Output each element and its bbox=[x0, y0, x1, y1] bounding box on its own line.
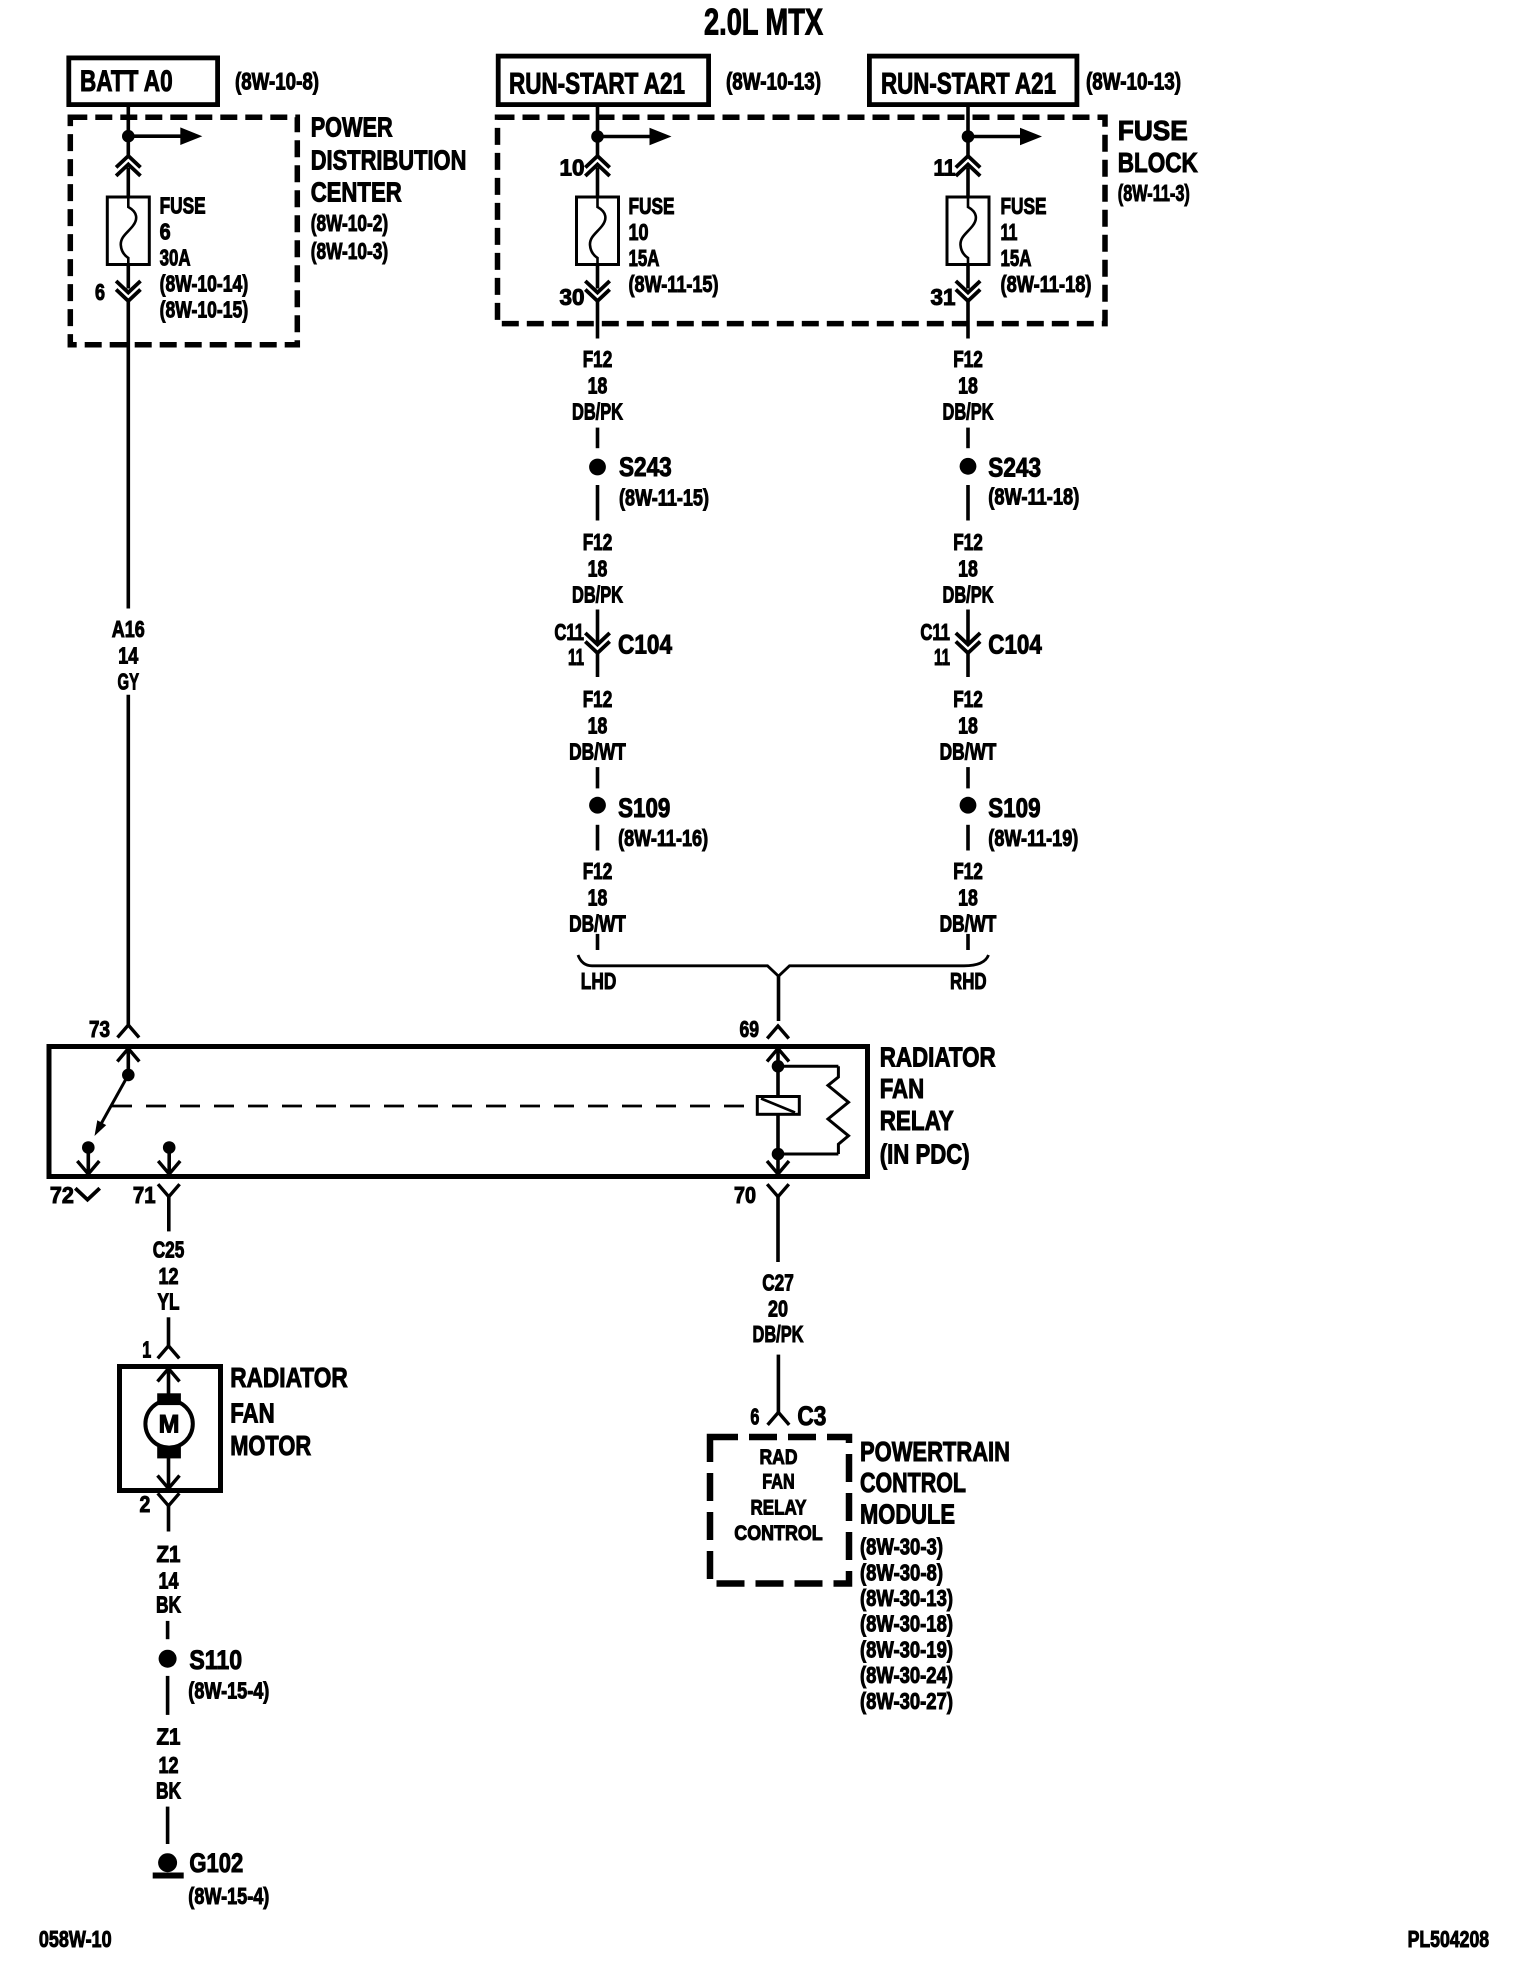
svg-text:(8W-11-19): (8W-11-19) bbox=[988, 825, 1078, 851]
pin 70 arrow inside relay bbox=[767, 1161, 789, 1174]
wire pin 30 out of fuse block bbox=[596, 301, 600, 339]
wire below C104 right bbox=[966, 653, 970, 677]
wire BATT A0 to junction bbox=[127, 105, 131, 133]
svg-text:C27: C27 bbox=[762, 1270, 794, 1296]
svg-text:MOTOR: MOTOR bbox=[230, 1430, 311, 1461]
svg-text:1: 1 bbox=[142, 1337, 151, 1363]
pin 71 arrow inside relay bbox=[158, 1161, 180, 1174]
battery feed box BATT A0 bbox=[69, 58, 218, 105]
pin 2 arrow inside motor box bbox=[158, 1476, 180, 1489]
svg-text:F12: F12 bbox=[583, 346, 613, 372]
pin 69 arrow inside relay bbox=[767, 1049, 789, 1062]
svg-text:DB/WT: DB/WT bbox=[940, 911, 997, 937]
connector double-chevron (PDC internal) bbox=[116, 156, 140, 168]
svg-text:DB/PK: DB/PK bbox=[572, 582, 623, 608]
radiator fan motor box bbox=[120, 1367, 221, 1491]
pin 31 double-chevron bbox=[956, 281, 980, 293]
svg-text:Z1: Z1 bbox=[157, 1541, 181, 1567]
svg-text:DB/PK: DB/PK bbox=[943, 399, 994, 425]
svg-text:(8W-30-3): (8W-30-3) bbox=[860, 1534, 943, 1560]
pin 30 double-chevron bbox=[585, 281, 609, 293]
wire to splice S243 right bbox=[966, 428, 970, 449]
svg-text:(8W-10-3): (8W-10-3) bbox=[311, 238, 389, 264]
svg-text:(8W-11-18): (8W-11-18) bbox=[1001, 271, 1092, 297]
wire motor to pin 2 bbox=[167, 1456, 171, 1489]
svg-text:18: 18 bbox=[588, 556, 608, 582]
svg-text:14: 14 bbox=[118, 643, 138, 669]
wire to C104 left bbox=[596, 610, 600, 646]
svg-text:(8W-30-18): (8W-30-18) bbox=[860, 1611, 953, 1637]
svg-text:6: 6 bbox=[160, 218, 171, 244]
svg-text:YL: YL bbox=[158, 1289, 180, 1315]
node pin 72 bbox=[82, 1141, 95, 1154]
svg-text:POWER: POWER bbox=[311, 111, 393, 142]
svg-text:S109: S109 bbox=[988, 793, 1040, 823]
svg-text:GY: GY bbox=[118, 669, 140, 695]
wire below S109 right bbox=[966, 825, 970, 851]
svg-text:RAD: RAD bbox=[760, 1446, 798, 1469]
ignition feed box RUN-START A21 (left) bbox=[498, 56, 708, 105]
svg-text:G102: G102 bbox=[189, 1848, 243, 1878]
wire A16 14 GY lower bbox=[127, 695, 131, 1025]
svg-text:15A: 15A bbox=[629, 245, 660, 271]
radiator fan relay box bbox=[49, 1047, 868, 1177]
relay coil bbox=[757, 1097, 799, 1115]
reference arrow (fuse block left) bbox=[598, 135, 651, 139]
coil top node bbox=[772, 1060, 785, 1073]
relay actuation dashed link bbox=[112, 1105, 757, 1108]
wire to C104 right bbox=[966, 610, 970, 646]
pin 6 double-chevron bbox=[116, 281, 140, 293]
wire to fuse 6 bbox=[127, 168, 131, 198]
svg-text:6: 6 bbox=[750, 1404, 759, 1430]
svg-text:DB/WT: DB/WT bbox=[569, 911, 626, 937]
reference arrow (fuse block right) bbox=[968, 135, 1021, 139]
svg-text:11: 11 bbox=[934, 155, 956, 181]
svg-text:RADIATOR: RADIATOR bbox=[230, 1362, 348, 1393]
motor M1 bbox=[145, 1400, 192, 1447]
wire pin 31 out of fuse block bbox=[966, 301, 970, 339]
svg-text:FUSE: FUSE bbox=[160, 192, 206, 218]
svg-text:RUN-START A21: RUN-START A21 bbox=[881, 68, 1056, 101]
svg-text:FUSE: FUSE bbox=[629, 193, 675, 219]
svg-text:BLOCK: BLOCK bbox=[1118, 147, 1198, 178]
svg-text:C3: C3 bbox=[797, 1401, 826, 1431]
svg-text:S110: S110 bbox=[189, 1645, 242, 1675]
ground G102 bbox=[158, 1853, 177, 1872]
svg-text:(8W-10-2): (8W-10-2) bbox=[311, 210, 389, 236]
motor brush (bottom) bbox=[157, 1447, 181, 1459]
svg-text:RHD: RHD bbox=[950, 968, 987, 994]
svg-text:18: 18 bbox=[958, 713, 978, 739]
junction node A (PDC) bbox=[122, 130, 135, 143]
svg-text:(8W-30-24): (8W-30-24) bbox=[860, 1662, 953, 1688]
wire to ground G102 bbox=[166, 1807, 170, 1844]
wire YL to motor pin 1 bbox=[167, 1317, 171, 1346]
wire to motor brush bbox=[167, 1369, 171, 1397]
junction node C (fuse block) bbox=[962, 130, 975, 143]
svg-text:(8W-11-15): (8W-11-15) bbox=[629, 271, 719, 297]
connector C104 chevrons right bbox=[956, 633, 980, 645]
wire to pin 71 bbox=[167, 1148, 171, 1175]
pin 6 connector C3 bbox=[768, 1412, 790, 1425]
svg-text:DISTRIBUTION: DISTRIBUTION bbox=[311, 145, 467, 176]
wire C27 to PCM pin 6 bbox=[777, 1355, 781, 1413]
svg-text:058W-10: 058W-10 bbox=[39, 1926, 112, 1952]
fuse 11 15A bbox=[947, 197, 989, 265]
svg-text:12: 12 bbox=[159, 1752, 179, 1778]
svg-text:LHD: LHD bbox=[581, 968, 617, 994]
svg-text:18: 18 bbox=[588, 373, 608, 399]
svg-text:F12: F12 bbox=[953, 858, 983, 884]
wire pin 69 to coil node bbox=[776, 1049, 780, 1067]
svg-text:FAN: FAN bbox=[880, 1073, 925, 1104]
svg-text:2: 2 bbox=[140, 1491, 151, 1517]
svg-text:18: 18 bbox=[588, 713, 608, 739]
svg-text:73: 73 bbox=[89, 1016, 110, 1042]
wire into RHD brace bbox=[966, 934, 970, 950]
svg-text:(8W-30-19): (8W-30-19) bbox=[860, 1636, 953, 1662]
relay suppression resistor bbox=[778, 1065, 838, 1068]
svg-text:CENTER: CENTER bbox=[311, 177, 402, 208]
svg-text:FUSE: FUSE bbox=[1118, 115, 1188, 146]
svg-text:DB/WT: DB/WT bbox=[940, 739, 997, 765]
wire coil to bottom node bbox=[776, 1114, 780, 1154]
svg-text:F12: F12 bbox=[583, 529, 613, 555]
svg-text:BATT A0: BATT A0 bbox=[80, 65, 173, 98]
coil bottom node bbox=[772, 1148, 785, 1161]
pin 73 arrow inside relay bbox=[117, 1049, 139, 1062]
svg-text:RELAY: RELAY bbox=[751, 1496, 807, 1519]
svg-text:(8W-30-8): (8W-30-8) bbox=[860, 1559, 943, 1585]
wire to splice S243 left bbox=[596, 428, 600, 449]
svg-text:C11: C11 bbox=[554, 619, 584, 645]
merged wire to pin 69 bbox=[777, 976, 781, 1021]
wire fuse 6 to pin 6 bbox=[127, 265, 131, 289]
merge brace LHD/RHD bbox=[578, 955, 989, 976]
svg-text:70: 70 bbox=[734, 1182, 756, 1208]
wire below S243 right bbox=[966, 485, 970, 521]
svg-text:72: 72 bbox=[50, 1182, 74, 1208]
svg-text:18: 18 bbox=[958, 556, 978, 582]
svg-text:(8W-10-8): (8W-10-8) bbox=[235, 69, 319, 96]
svg-text:MODULE: MODULE bbox=[860, 1499, 955, 1530]
powertrain control module dashed box bbox=[710, 1437, 849, 1584]
svg-text:S243: S243 bbox=[619, 452, 672, 482]
wire RUN-START right to junction bbox=[966, 105, 970, 133]
svg-text:18: 18 bbox=[588, 885, 608, 911]
connector C104 chevrons left bbox=[585, 633, 609, 645]
svg-text:F12: F12 bbox=[953, 529, 983, 555]
svg-text:F12: F12 bbox=[583, 686, 613, 712]
svg-text:PL504208: PL504208 bbox=[1408, 1926, 1490, 1952]
svg-text:14: 14 bbox=[159, 1568, 179, 1594]
wire node to coil bbox=[776, 1066, 780, 1096]
pin 2 connector bbox=[158, 1493, 180, 1506]
pin 69 connector bbox=[767, 1026, 789, 1039]
svg-text:(8W-30-27): (8W-30-27) bbox=[860, 1688, 953, 1714]
pin 1 arrow inside motor box bbox=[158, 1369, 180, 1382]
wire junction to pin 10 bbox=[596, 141, 600, 156]
svg-text:(8W-10-13): (8W-10-13) bbox=[1086, 69, 1181, 96]
svg-text:18: 18 bbox=[958, 885, 978, 911]
pin 72 arrow inside relay bbox=[77, 1161, 99, 1174]
relay switch blade bbox=[99, 1075, 129, 1129]
svg-text:S109: S109 bbox=[618, 793, 670, 823]
svg-text:69: 69 bbox=[740, 1016, 760, 1042]
svg-text:F12: F12 bbox=[953, 686, 983, 712]
svg-text:F12: F12 bbox=[953, 346, 983, 372]
fuse 10 15A bbox=[577, 197, 619, 265]
svg-text:POWERTRAIN: POWERTRAIN bbox=[860, 1436, 1010, 1467]
switch pivot node bbox=[122, 1069, 135, 1082]
splice S109 left bbox=[589, 797, 606, 814]
svg-text:C104: C104 bbox=[618, 630, 672, 660]
svg-text:6: 6 bbox=[95, 279, 105, 305]
svg-text:Z1: Z1 bbox=[157, 1724, 181, 1750]
pin 1 connector bbox=[158, 1346, 180, 1359]
svg-text:12: 12 bbox=[159, 1263, 179, 1289]
svg-text:30: 30 bbox=[560, 284, 585, 310]
pin 71 connector bbox=[158, 1184, 180, 1197]
svg-text:(8W-11-16): (8W-11-16) bbox=[618, 825, 708, 851]
svg-text:11: 11 bbox=[1001, 219, 1018, 245]
wire junction to pin 11 bbox=[966, 141, 970, 156]
svg-text:11: 11 bbox=[934, 644, 950, 670]
pin 11 double-chevron bbox=[956, 156, 980, 168]
svg-text:(8W-11-18): (8W-11-18) bbox=[988, 483, 1079, 509]
wire fuse 10 to pin 30 bbox=[596, 265, 600, 289]
svg-text:RELAY: RELAY bbox=[880, 1105, 954, 1136]
splice S243 left bbox=[589, 459, 606, 476]
ignition feed box RUN-START A21 (right) bbox=[869, 56, 1077, 105]
svg-text:FAN: FAN bbox=[230, 1398, 275, 1429]
svg-text:RUN-START A21: RUN-START A21 bbox=[509, 68, 685, 101]
fuse block dashed box bbox=[498, 117, 1106, 323]
svg-text:FAN: FAN bbox=[762, 1471, 794, 1494]
wire pin 70 to C27 label bbox=[776, 1197, 780, 1262]
svg-text:DB/PK: DB/PK bbox=[943, 582, 994, 608]
svg-text:(8W-15-4): (8W-15-4) bbox=[188, 1678, 269, 1704]
splice S243 right bbox=[960, 458, 977, 475]
wire junction to connector bbox=[127, 141, 131, 156]
fuse 6 30A bbox=[107, 197, 149, 265]
svg-text:CONTROL: CONTROL bbox=[734, 1522, 823, 1545]
svg-text:CONTROL: CONTROL bbox=[860, 1467, 966, 1498]
wire pin 71 to C25 label bbox=[167, 1197, 171, 1232]
svg-text:(8W-11-3): (8W-11-3) bbox=[1118, 180, 1190, 206]
motor brush (top) bbox=[157, 1393, 181, 1405]
wire to pin 70 bbox=[776, 1154, 780, 1174]
svg-text:DB/WT: DB/WT bbox=[569, 739, 626, 765]
wire RUN-START left to junction bbox=[596, 105, 600, 133]
svg-text:(8W-11-15): (8W-11-15) bbox=[619, 485, 709, 511]
pin 70 connector bbox=[767, 1184, 789, 1197]
svg-text:10: 10 bbox=[560, 155, 585, 181]
svg-text:20: 20 bbox=[768, 1295, 788, 1321]
svg-text:DB/PK: DB/PK bbox=[753, 1321, 804, 1347]
svg-text:(8W-10-14): (8W-10-14) bbox=[160, 270, 249, 296]
wire to fuse 11 bbox=[966, 168, 970, 198]
svg-text:FUSE: FUSE bbox=[1001, 193, 1047, 219]
svg-text:(8W-15-4): (8W-15-4) bbox=[188, 1883, 269, 1909]
wire to fuse 10 bbox=[596, 168, 600, 198]
pin 10 double-chevron bbox=[585, 156, 609, 168]
wire to pin 72 bbox=[87, 1148, 91, 1175]
pin 73 connector bbox=[118, 1025, 140, 1038]
wire into LHD brace bbox=[596, 934, 600, 950]
svg-text:(IN PDC): (IN PDC) bbox=[880, 1138, 970, 1169]
svg-text:10: 10 bbox=[629, 219, 649, 245]
svg-text:(8W-10-13): (8W-10-13) bbox=[726, 69, 821, 96]
wire A16 14 GY upper bbox=[127, 301, 131, 609]
wire pin73 to switch pivot bbox=[127, 1049, 131, 1075]
junction node B (fuse block) bbox=[591, 130, 604, 143]
power distribution center dashed box bbox=[70, 117, 297, 344]
svg-text:BK: BK bbox=[156, 1592, 181, 1618]
svg-text:F12: F12 bbox=[583, 858, 613, 884]
svg-text:M: M bbox=[159, 1411, 180, 1439]
svg-text:C104: C104 bbox=[988, 630, 1042, 660]
splice S109 right bbox=[960, 797, 977, 814]
wire below motor pin 2 bbox=[167, 1506, 171, 1532]
svg-text:A16: A16 bbox=[112, 616, 145, 642]
wire below C104 left bbox=[596, 653, 600, 677]
svg-text:C25: C25 bbox=[153, 1236, 185, 1262]
svg-text:S243: S243 bbox=[988, 452, 1041, 482]
node pin 71 bbox=[163, 1141, 176, 1154]
pin 72 chevron (no connection) bbox=[75, 1188, 99, 1200]
wire to splice S109 right bbox=[966, 767, 970, 788]
svg-text:18: 18 bbox=[958, 373, 978, 399]
svg-text:30A: 30A bbox=[160, 244, 191, 270]
svg-text:15A: 15A bbox=[1001, 245, 1032, 271]
reference arrow (PDC feed) bbox=[128, 134, 181, 138]
wire below S110 bbox=[166, 1676, 170, 1715]
svg-text:(8W-30-13): (8W-30-13) bbox=[860, 1585, 953, 1611]
svg-text:2.0L MTX: 2.0L MTX bbox=[704, 2, 823, 43]
wire fuse 11 to pin 31 bbox=[966, 265, 970, 289]
svg-text:(8W-10-15): (8W-10-15) bbox=[160, 296, 249, 322]
svg-text:31: 31 bbox=[931, 284, 956, 310]
wire below S109 left bbox=[596, 825, 600, 851]
svg-text:DB/PK: DB/PK bbox=[572, 399, 623, 425]
svg-text:RADIATOR: RADIATOR bbox=[880, 1041, 996, 1072]
svg-text:BK: BK bbox=[156, 1777, 181, 1803]
wire to splice S109 left bbox=[596, 767, 600, 788]
svg-text:C11: C11 bbox=[920, 619, 950, 645]
wire to splice S110 bbox=[166, 1621, 170, 1639]
svg-text:71: 71 bbox=[133, 1182, 156, 1208]
splice S110 bbox=[159, 1650, 177, 1668]
wire below S243 left bbox=[596, 485, 600, 521]
svg-text:11: 11 bbox=[568, 644, 584, 670]
